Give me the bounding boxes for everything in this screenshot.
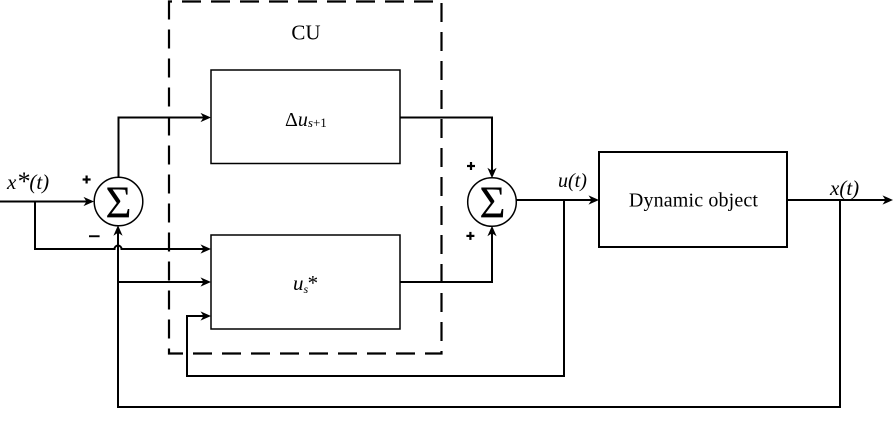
svg-text:Σ: Σ — [105, 178, 131, 228]
svg-text:Σ: Σ — [479, 178, 505, 228]
svg-text:CU: CU — [291, 21, 320, 45]
svg-text:x*(t): x*(t) — [6, 167, 49, 196]
svg-text:Dynamic object: Dynamic object — [629, 190, 759, 212]
svg-text:x(t): x(t) — [829, 176, 859, 200]
svg-text:u(t): u(t) — [558, 170, 587, 192]
